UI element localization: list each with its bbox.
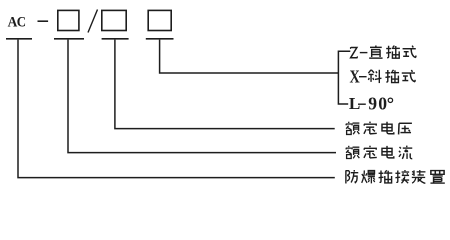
- svg-text:C: C: [17, 14, 26, 30]
- hyphen L row: [358, 104, 366, 105]
- bracket for Z/X/L options: [338, 51, 350, 104]
- char 定: [364, 146, 377, 158]
- char 压: [399, 123, 412, 134]
- hyphen Z row: [360, 52, 368, 53]
- leader line from box 2: [115, 40, 335, 129]
- char 额: [346, 146, 360, 159]
- char 电: [382, 146, 394, 158]
- char 插: [379, 170, 393, 183]
- degree symbol: [388, 98, 392, 102]
- char 直: [369, 45, 382, 58]
- tick under box 2: [102, 38, 129, 40]
- char 爆: [362, 170, 375, 183]
- tick under AC: [6, 38, 32, 40]
- char 式: [402, 70, 415, 82]
- label Z: [351, 47, 358, 58]
- tick under box 1: [54, 38, 84, 40]
- char 插: [385, 70, 399, 83]
- leader line from box 1: [68, 40, 336, 153]
- box field 1: [58, 10, 79, 30]
- box field 3: [148, 10, 171, 30]
- dash after AC: [38, 20, 49, 22]
- char 接: [395, 170, 409, 183]
- tick under box 3: [146, 38, 174, 40]
- char 电: [382, 122, 394, 134]
- char 斜: [368, 70, 381, 83]
- leader line from AC to bottom label: [18, 40, 335, 178]
- char 防: [346, 170, 358, 183]
- char 额: [346, 122, 360, 135]
- char 定: [364, 122, 377, 134]
- svg-text:X: X: [350, 66, 360, 87]
- char 置: [430, 171, 444, 184]
- slash separator: [88, 10, 98, 33]
- char 式: [403, 46, 416, 58]
- char 插: [386, 46, 400, 59]
- hyphen X row: [359, 76, 367, 77]
- box field 2: [102, 10, 126, 30]
- char 装: [412, 170, 426, 183]
- leader line from box 3 to bracket: [160, 40, 339, 73]
- svg-text:90: 90: [368, 94, 388, 114]
- char 流: [399, 146, 412, 159]
